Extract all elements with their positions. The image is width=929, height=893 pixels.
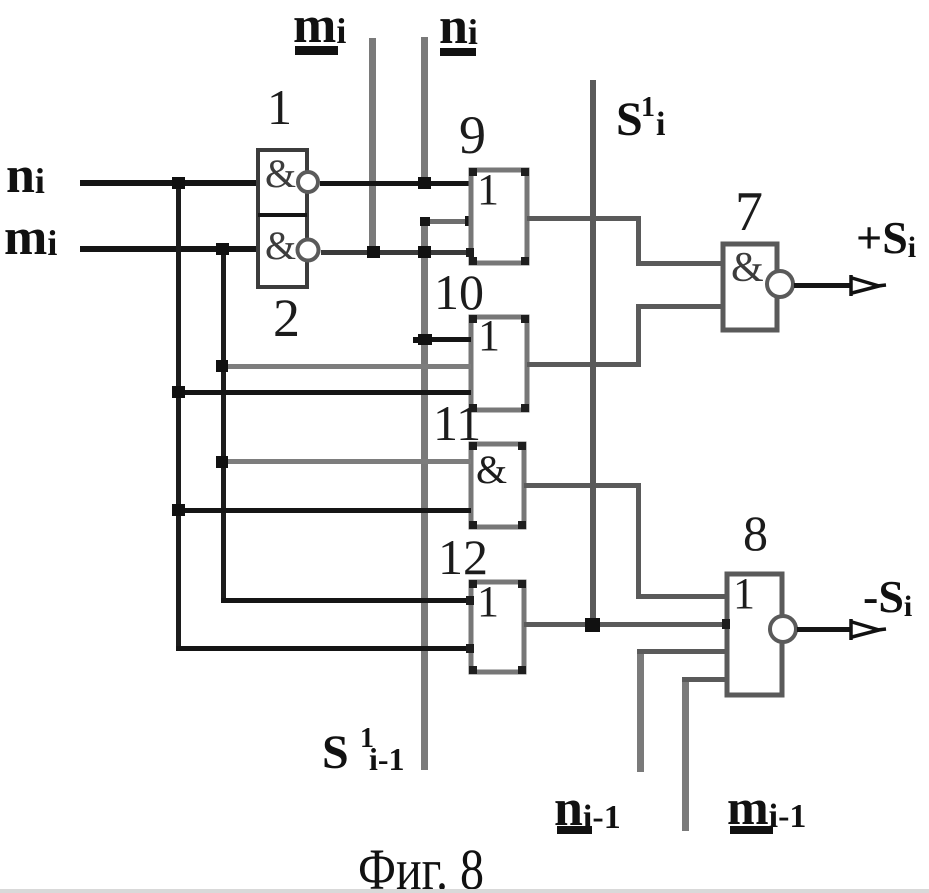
- wire gate10 input 2 from VL2: [223, 364, 471, 369]
- junction dot VL2 row462: [216, 456, 228, 468]
- svg-text:&: &: [476, 447, 507, 492]
- wire row B: mi input to gate 2: [80, 246, 258, 252]
- svg-text:9: 9: [459, 105, 486, 165]
- junction dot rowB-VL2: [216, 243, 229, 255]
- junction dot VL1 row392: [172, 386, 185, 398]
- svg-text:1: 1: [477, 165, 499, 214]
- node S1i (vertical bus label): [616, 92, 665, 146]
- gate 10 box (OR "1"): [471, 317, 527, 410]
- gate 8 box (NOR "1"): [727, 574, 782, 695]
- wire row A: ni input to gate 1: [80, 180, 258, 186]
- wire gate2 output row to gate 9 input 3: [321, 250, 471, 255]
- wire gate12 input 2 from VL1 corner: [176, 646, 471, 651]
- svg-text:1: 1: [267, 79, 292, 135]
- wire S1i vertical bus V4: [590, 80, 596, 627]
- node mi (top bus label, inverted): [293, 0, 346, 55]
- svg-text:2: 2: [273, 288, 300, 348]
- output arrow +Si: [851, 275, 886, 296]
- svg-text:&: &: [265, 151, 296, 196]
- node mi-1 (bottom bus label, inverted): [727, 779, 806, 835]
- wire mi vertical bus V1: [369, 38, 376, 255]
- wire gate10 input 1 from V3: [425, 337, 471, 342]
- junction dot rowA-VL1: [172, 177, 185, 189]
- svg-text:1: 1: [477, 577, 499, 626]
- wire gate 11 output to gate 8 input 1: [524, 483, 727, 599]
- wire VL2 left vertical from row B: [221, 249, 226, 600]
- wire gate 7 output: [794, 283, 852, 288]
- gate 2 inverter bubble: [298, 240, 319, 261]
- wire gate 9 output to gate 7 input 1: [527, 216, 723, 266]
- svg-text:1: 1: [478, 311, 500, 360]
- box corner accents: [466, 168, 730, 674]
- wire gate1 output to gate 9 input 1: [320, 181, 471, 186]
- wire V3 top corner to gate 9 input 2: [421, 219, 471, 224]
- wire ni vertical bus V2: [421, 37, 428, 184]
- wire gate 12 output to gate 8 input 2: [524, 622, 727, 627]
- wire gate12 input 1 from VL2 corner: [221, 598, 471, 603]
- junction dot VL1 row510: [172, 504, 185, 516]
- wire S1i-1 vertical bus V3: [421, 220, 428, 770]
- junction dot rowA-V2: [418, 177, 431, 189]
- gate 11 box (AND "&"): [471, 444, 524, 527]
- svg-text:7: 7: [735, 181, 763, 243]
- wire ni-1 vertical bus V5 + corner to gate 8 input 3: [637, 649, 644, 772]
- gate U1/U2 combined box (NAND 1 over NAND 2): [258, 150, 307, 287]
- svg-text:&: &: [731, 245, 764, 291]
- gate 7 box (NAND): [723, 244, 777, 330]
- wire gate11 input 1 from VL2: [223, 459, 471, 464]
- svg-text:+Si: +Si: [856, 212, 916, 264]
- wire VL1 left vertical from row A: [176, 183, 181, 648]
- junction dot+arrow nub V3-gate10in1: [418, 334, 432, 345]
- wire gate11 input 2 from VL1: [179, 508, 471, 513]
- wire mi-1 vertical bus V6 + corner to gate 8 input 4: [682, 677, 689, 831]
- node ni (top bus label, inverted): [439, 0, 478, 56]
- gate 9 box (OR "1"): [471, 170, 527, 263]
- svg-text:&: &: [265, 223, 296, 268]
- scan artifact bottom strip: [0, 889, 929, 893]
- svg-text:1: 1: [733, 569, 755, 618]
- svg-text:10: 10: [434, 264, 484, 320]
- gate 7 inverter bubble: [767, 271, 793, 297]
- junction dot VL2 row367: [216, 360, 228, 372]
- gate 12 box (OR "1"): [471, 582, 524, 672]
- junction dot gate12out-V4: [585, 618, 600, 632]
- node ni-1 (bottom bus label, inverted): [554, 780, 621, 837]
- gate 1 inverter bubble: [298, 172, 318, 192]
- svg-text:Фиг. 8: Фиг. 8: [358, 837, 484, 893]
- wire gate10 input 3 from VL1: [179, 390, 471, 395]
- wire gate 10 output to gate 7 input 2: [527, 304, 723, 367]
- svg-text:8: 8: [743, 505, 768, 561]
- gate 8 inverter bubble: [770, 616, 796, 642]
- output arrow -Si: [851, 619, 886, 640]
- wire gate 8 output: [797, 627, 852, 632]
- junction dot row2out-V3: [418, 246, 431, 258]
- junction dot row2out-V1: [367, 246, 380, 258]
